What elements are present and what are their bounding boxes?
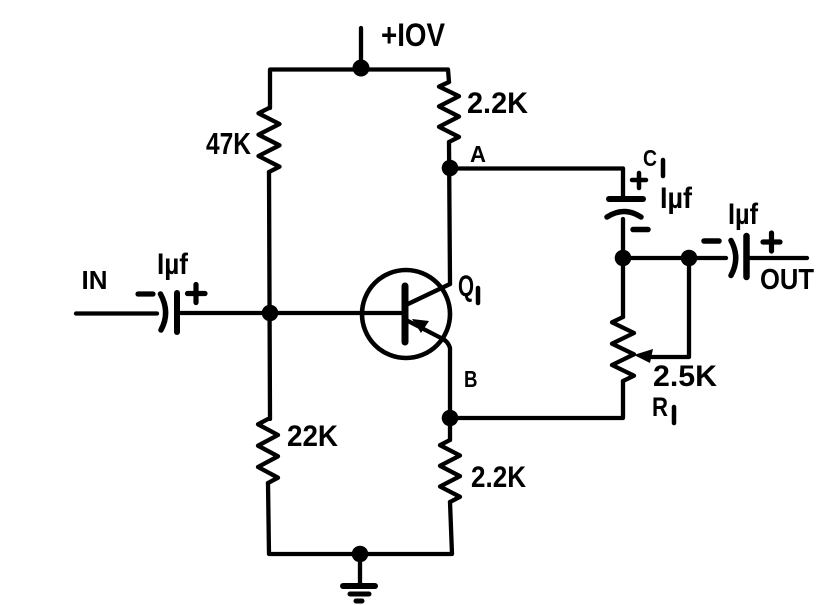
svg-text:47K: 47K (206, 126, 251, 161)
wire top rail (270, 70, 449, 109)
capacitor output curved plate (731, 241, 736, 276)
wire node A row (450, 166, 623, 170)
wire C1 top stub (621, 169, 625, 198)
resistor 2.2K bottom (440, 440, 460, 502)
capacitor output straight plate (743, 236, 750, 277)
svg-text:2.5K: 2.5K (653, 360, 717, 393)
node A dot (442, 160, 459, 177)
wire mid vertical collector (449, 142, 450, 284)
wire +10V stub (359, 28, 363, 69)
node B dot (442, 410, 459, 427)
transistor Q1 emitter arrow (412, 319, 429, 333)
svg-text:R: R (652, 392, 668, 422)
plus sign C1 (632, 173, 646, 188)
wire output right (750, 256, 807, 260)
node dot output junction (681, 250, 698, 267)
capacitor input curved plate (161, 294, 166, 330)
wire output to cap (689, 256, 726, 260)
wire input left (76, 311, 157, 315)
capacitor input straight plate (174, 293, 180, 332)
svg-text:2.2K: 2.2K (467, 87, 528, 120)
minus sign input cap (138, 291, 153, 296)
svg-text:A: A (470, 141, 486, 167)
wire input right (181, 311, 403, 315)
svg-text:22K: 22K (287, 420, 338, 453)
transistor Q1 base bar (402, 286, 409, 342)
minus sign output cap (704, 238, 719, 244)
potentiometer R1 (612, 317, 634, 381)
capacitor C1 straight plate (609, 196, 643, 202)
resistor 2.2K top (439, 82, 459, 142)
wire collector diagonal (408, 284, 450, 304)
wire junction row (623, 256, 689, 260)
wire left vertical 47K to 22K (269, 172, 270, 419)
capacitor C1 curved plate (607, 212, 641, 218)
node dot C1 bottom (615, 250, 632, 267)
wire R1 top lead (621, 258, 625, 317)
ground (343, 554, 375, 601)
svg-text:+IOV: +IOV (381, 17, 446, 53)
svg-text:C: C (643, 145, 657, 171)
resistor 22K (258, 419, 278, 483)
arrowhead R1 wiper (634, 349, 653, 363)
svg-text:Iµf: Iµf (157, 248, 189, 281)
svg-text:Iµf: Iµf (728, 198, 759, 231)
svg-text:Iµf: Iµf (660, 182, 693, 215)
wire emitter diagonal (408, 321, 450, 418)
node dot input junction (262, 305, 279, 322)
plus sign output cap (763, 233, 780, 251)
wire node B to R1 bottom (450, 381, 623, 418)
node dot +10V (353, 60, 370, 77)
svg-text:2.2K: 2.2K (471, 461, 526, 494)
wire out vertical to wiper (651, 258, 689, 357)
plus sign input cap (188, 285, 206, 303)
svg-text:B: B (464, 366, 478, 392)
svg-text:IN: IN (82, 265, 108, 295)
wire C1 bottom stub (621, 219, 625, 258)
transistor Q1 circle (362, 270, 450, 358)
wire emitter lead to node B (448, 418, 452, 440)
svg-text:Q: Q (458, 270, 474, 303)
wire bottom rail (268, 483, 452, 554)
svg-text:OUT: OUT (760, 264, 814, 296)
resistor 47K (259, 108, 280, 172)
node dot ground (352, 546, 369, 563)
minus sign C1 (633, 227, 648, 233)
